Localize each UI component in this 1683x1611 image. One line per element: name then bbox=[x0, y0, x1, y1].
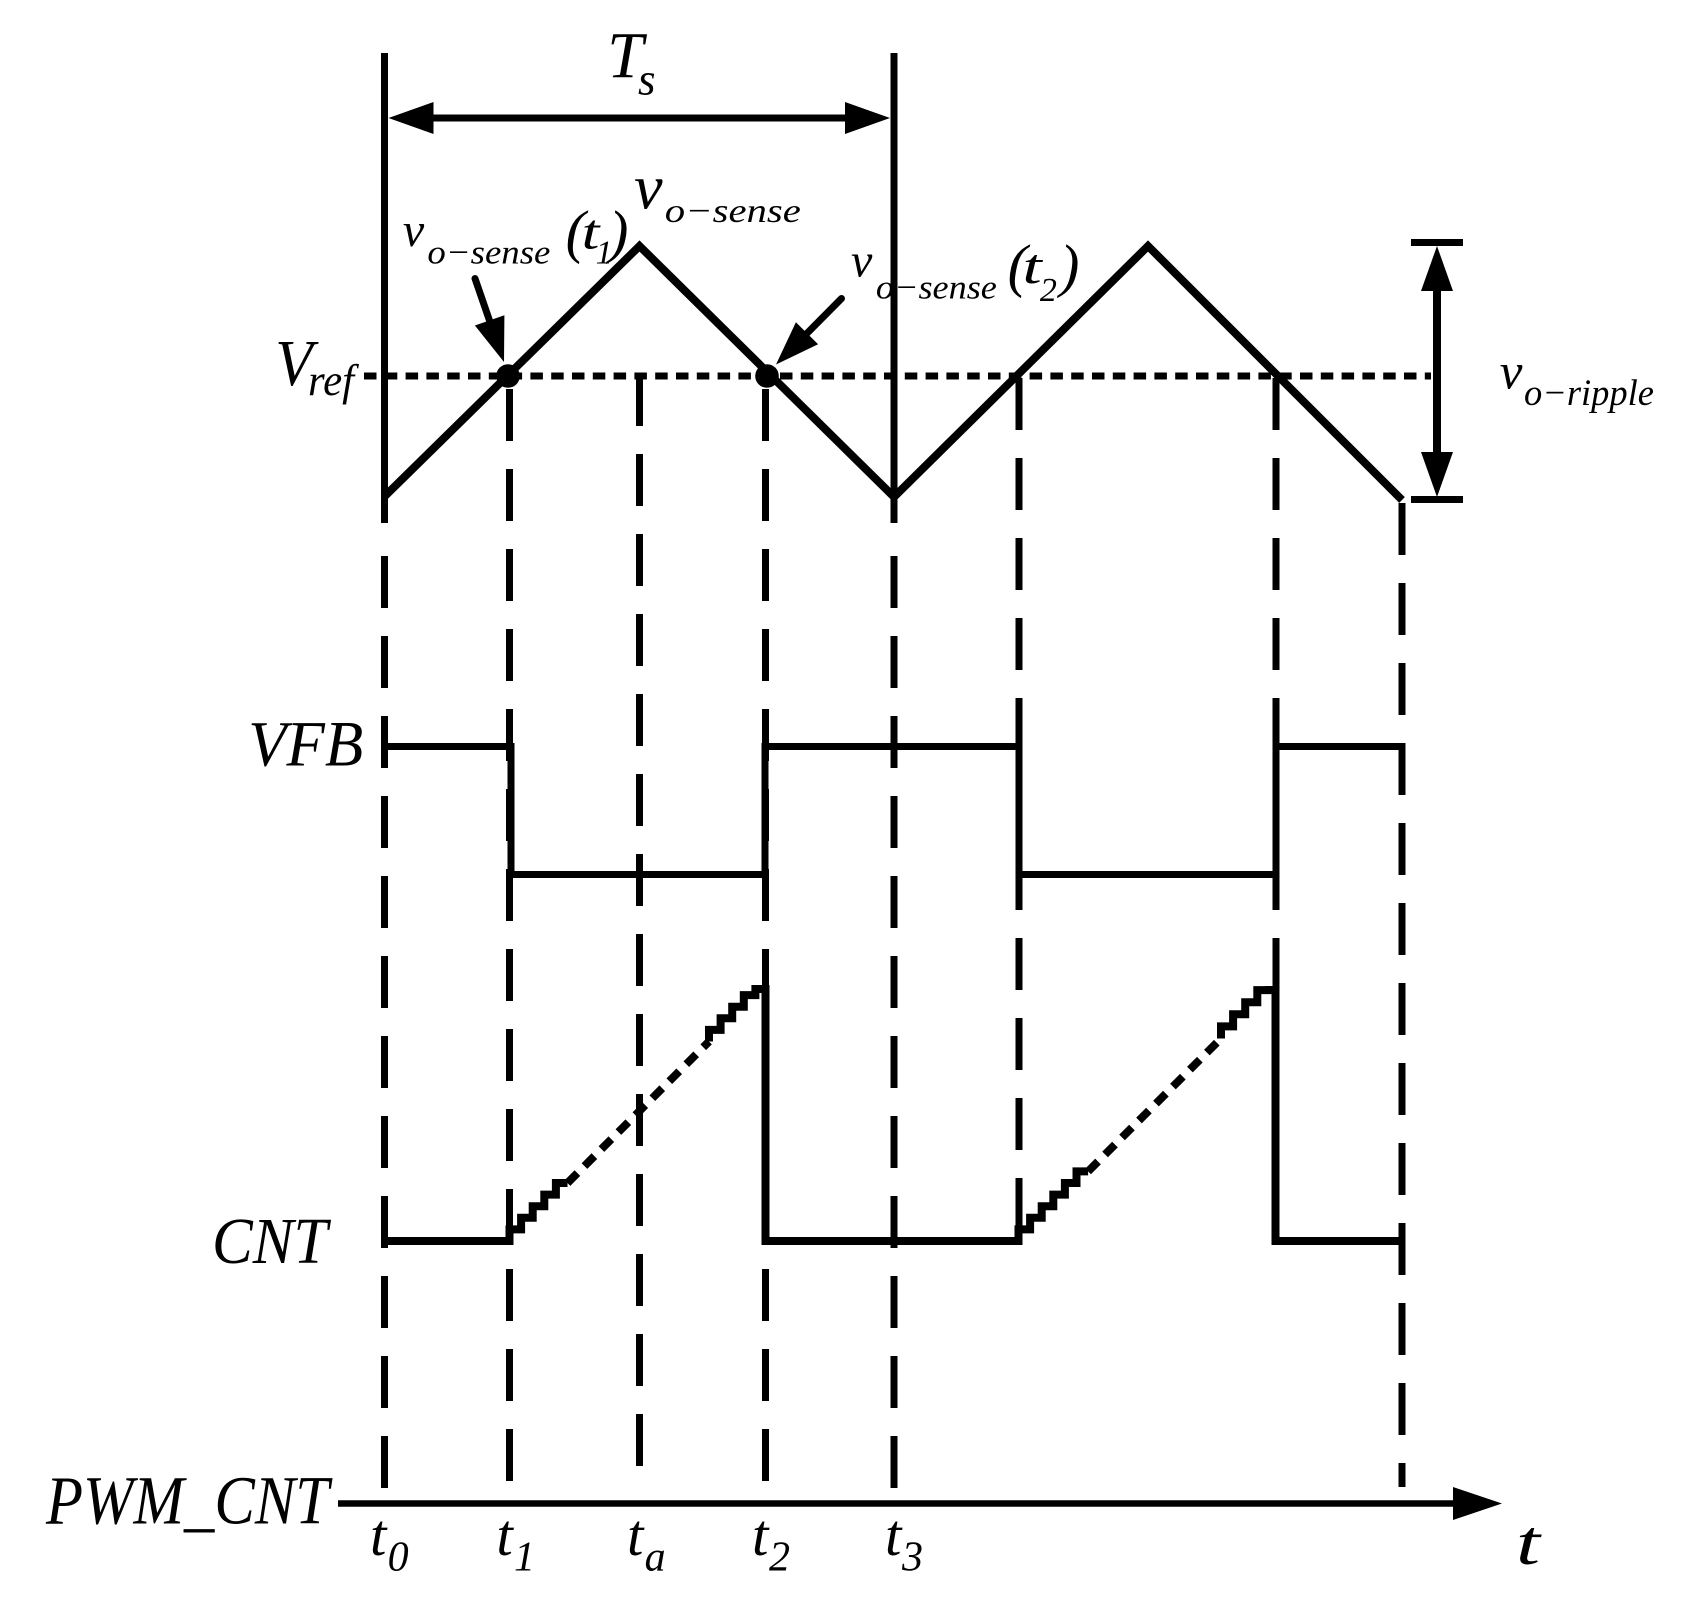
svg-text:ref: ref bbox=[308, 356, 360, 405]
svg-text:PWM_CNT: PWM_CNT bbox=[45, 1462, 333, 1538]
svg-text:3: 3 bbox=[901, 1535, 923, 1581]
svg-text:t: t bbox=[752, 1502, 770, 1568]
svg-text:VFB: VFB bbox=[248, 709, 363, 781]
svg-text:t: t bbox=[885, 1502, 903, 1568]
svg-text:t: t bbox=[1516, 1507, 1543, 1578]
svg-text:2: 2 bbox=[1040, 272, 1057, 309]
svg-text:1: 1 bbox=[514, 1535, 535, 1581]
svg-text:): ) bbox=[606, 198, 629, 264]
svg-text:o−sense: o−sense bbox=[665, 193, 801, 230]
svg-text:v: v bbox=[403, 204, 425, 257]
svg-text:a: a bbox=[645, 1535, 666, 1581]
svg-text:t: t bbox=[496, 1502, 514, 1568]
svg-text:s: s bbox=[638, 55, 656, 105]
svg-text:o−ripple: o−ripple bbox=[1524, 373, 1654, 414]
svg-text:): ) bbox=[1057, 233, 1080, 299]
svg-text:o−sense: o−sense bbox=[876, 269, 997, 306]
svg-text:0: 0 bbox=[388, 1535, 409, 1581]
svg-text:2: 2 bbox=[769, 1535, 790, 1581]
svg-text:v: v bbox=[1500, 344, 1523, 400]
svg-text:v: v bbox=[634, 152, 663, 223]
svg-text:CNT: CNT bbox=[212, 1205, 331, 1278]
svg-text:t: t bbox=[627, 1502, 645, 1568]
svg-text:v: v bbox=[851, 235, 873, 288]
svg-text:o−sense: o−sense bbox=[427, 234, 550, 271]
svg-text:t: t bbox=[370, 1502, 388, 1568]
